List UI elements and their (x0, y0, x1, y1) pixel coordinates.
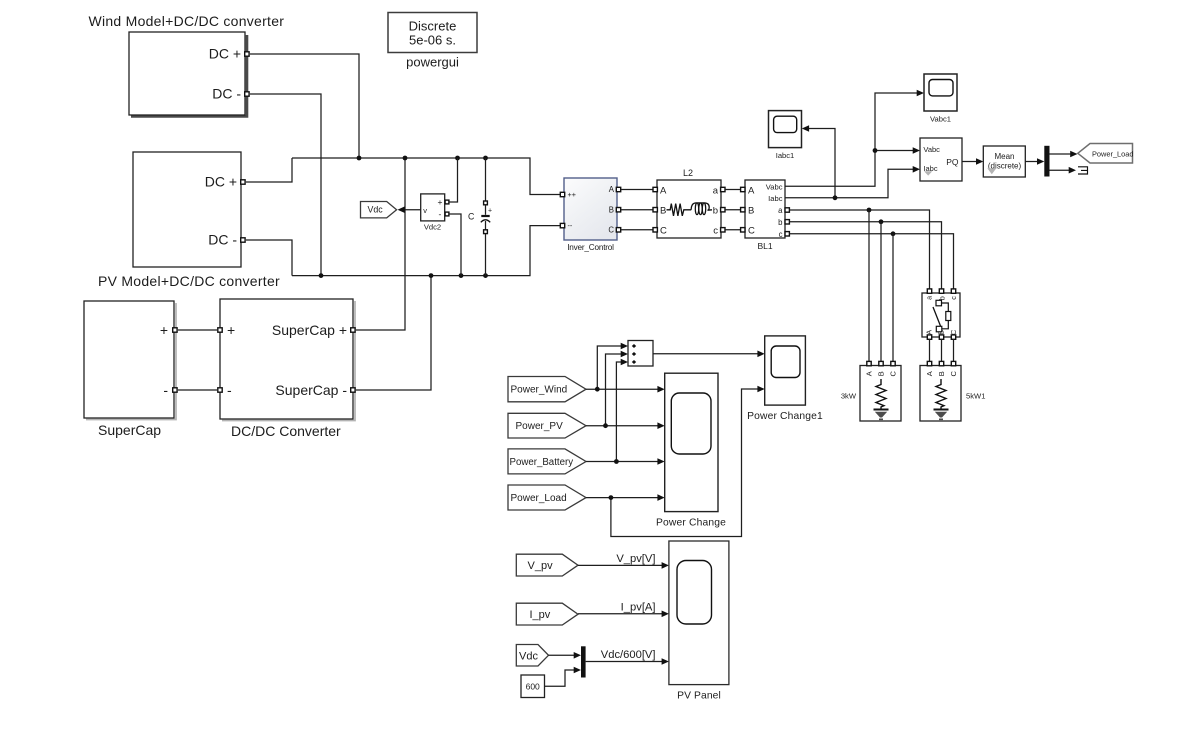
wire phase c BL1 to breaker (789, 234, 953, 289)
svg-text:Vdc2: Vdc2 (424, 223, 441, 232)
wire bottom DC bus (292, 226, 561, 276)
node junction Power_PV (603, 423, 608, 428)
from tag V_pv (516, 554, 578, 576)
svg-text:B: B (748, 206, 754, 217)
svg-text:Iabc1: Iabc1 (776, 151, 795, 160)
node junction top bus x405 (403, 156, 408, 161)
svg-text:Power Change: Power Change (656, 518, 726, 529)
svg-text:DC +: DC + (209, 46, 241, 62)
node junction Vabc branch (873, 148, 878, 153)
svg-text:a: a (925, 296, 934, 300)
wire Vdc2 + to top bus (449, 158, 458, 202)
from tag Power_Load (508, 485, 586, 510)
mux2 Vdc scale (581, 646, 586, 677)
wire branch Power_Battery to mux (616, 362, 622, 462)
terminator (1078, 167, 1088, 174)
three-phase load 3kW (841, 361, 901, 421)
wire Power_Wind to Power Change (586, 388, 659, 390)
block DC/DC Converter (218, 299, 355, 439)
node junction bottom bus x485 (483, 273, 488, 278)
goto tag Power_Load (1078, 144, 1134, 164)
wire demux to Power_Load goto (1050, 153, 1072, 155)
node junction top bus x457 (455, 156, 460, 161)
svg-text:+: + (160, 322, 168, 338)
wire Vdc2 - to bottom bus (449, 214, 461, 276)
wire DC/DC SuperCap+ to top bus (356, 158, 405, 330)
node junction Power_Load (609, 495, 614, 500)
svg-text:A: A (925, 371, 934, 376)
svg-text:5e-06 s.: 5e-06 s. (409, 33, 456, 48)
svg-text:Power_Battery: Power_Battery (510, 457, 574, 468)
wire Vdc2 v to Vdc tag (404, 209, 421, 211)
wire DC/DC SuperCap- to bottom bus (356, 276, 431, 390)
wire V_pv to PV Panel (578, 564, 663, 566)
svg-text:SuperCap +: SuperCap + (272, 322, 347, 338)
from tag Power_Battery (508, 449, 586, 474)
wire 600 to mux2 (545, 670, 576, 686)
wire breaker to 5kW1 phase b (941, 339, 943, 362)
svg-text:a: a (778, 206, 783, 215)
from tag Power_PV (508, 413, 586, 438)
svg-text:PV Panel: PV Panel (677, 691, 721, 702)
node junction bottom bus x321 (319, 273, 324, 278)
wire breaker to 5kW1 phase c (953, 339, 955, 362)
svg-text:b: b (937, 296, 946, 300)
svg-text:C: C (889, 371, 898, 377)
powergui (388, 13, 477, 70)
wire branch Power_PV to mux (606, 354, 623, 426)
svg-text:Vabc: Vabc (923, 145, 940, 154)
svg-text:b: b (713, 206, 718, 217)
wire PV DC- to bottom bus (246, 240, 292, 276)
svg-text:Inver_Control: Inver_Control (567, 243, 614, 252)
svg-text:A: A (748, 185, 755, 196)
wire Inver B to L2 B (621, 209, 653, 211)
svg-text:powergui: powergui (406, 55, 459, 70)
svg-text:c: c (779, 230, 783, 239)
wire phase a to 3kW load (868, 210, 870, 362)
wire SuperCap- to DC/DC - (178, 389, 217, 391)
svg-text:-: - (439, 209, 442, 219)
svg-text:V_pv: V_pv (528, 560, 554, 572)
svg-text:A: A (660, 185, 667, 196)
wire Power_Load to Power Change (586, 497, 659, 499)
svg-text:I_pv: I_pv (530, 609, 551, 621)
wire Power_Battery to Power Change (586, 461, 659, 463)
svg-text:Power_PV: Power_PV (516, 421, 564, 432)
scope Power Change (656, 373, 726, 528)
goto tag Vdc (361, 202, 397, 218)
node junction phase c (891, 231, 896, 236)
wire phase b to 3kW load (880, 222, 882, 362)
block Mean (discrete) (983, 146, 1025, 177)
svg-text:Vabc: Vabc (766, 182, 783, 191)
block PV Model+DC/DC converter (98, 152, 280, 289)
node junction phase a (867, 208, 872, 213)
svg-text:Wind Model+DC/DC converter: Wind Model+DC/DC converter (89, 13, 285, 29)
svg-text:A: A (609, 185, 615, 194)
svg-text:B: B (660, 206, 666, 217)
svg-text:600: 600 (526, 682, 540, 692)
wire mux2 to PV Panel (586, 661, 663, 663)
svg-text:Vdc/600[V]: Vdc/600[V] (601, 649, 656, 661)
svg-text:c: c (713, 226, 718, 237)
svg-text:PQ: PQ (946, 157, 959, 167)
node junction top bus x359 (357, 156, 362, 161)
wire PV DC+ to top bus (246, 158, 292, 182)
svg-text:v: v (423, 206, 427, 215)
svg-text:Mean: Mean (994, 152, 1014, 161)
svg-text:C: C (748, 226, 755, 237)
node junction Power_Wind (595, 387, 600, 392)
scope Iabc1 (769, 111, 802, 160)
wire PQ to Mean (962, 161, 977, 163)
three-phase load 5kW1 (920, 361, 985, 421)
svg-text:++: ++ (568, 190, 576, 199)
wire L2 a to BL1 A (725, 189, 742, 191)
wire top DC bus (292, 158, 561, 195)
wire Wind DC- to bottom bus (250, 94, 321, 276)
svg-text:A: A (865, 371, 874, 376)
svg-text:Power_Load: Power_Load (1092, 149, 1134, 158)
wire L2 c to BL1 C (725, 229, 742, 231)
svg-text:-: - (163, 382, 168, 398)
wire Inver C to L2 C (621, 229, 653, 231)
demux (1044, 146, 1049, 177)
svg-text:Vdc: Vdc (519, 650, 538, 662)
wire I_pv to PV Panel (578, 613, 663, 615)
scope Power Change1 (747, 336, 823, 422)
svg-text:A: A (925, 330, 934, 335)
three-phase series RL branch L2 (653, 168, 725, 238)
svg-text:DC/DC Converter: DC/DC Converter (231, 423, 341, 439)
svg-text:B: B (877, 371, 886, 376)
svg-text:DC +: DC + (205, 174, 237, 190)
power measurement block PQ (920, 138, 962, 181)
wire branch Iabc to Iabc1 scope (808, 129, 835, 198)
wire demux to terminator (1050, 169, 1070, 171)
node junction Power_Battery (614, 459, 619, 464)
block SuperCap (84, 301, 177, 438)
wire Mean to demux (1025, 161, 1038, 163)
wire Power_PV to Power Change (586, 425, 659, 427)
svg-text:C: C (608, 225, 614, 234)
svg-text:+: + (438, 197, 443, 207)
from tag I_pv (516, 603, 578, 625)
wire branch Power_Load to Power Change1 (611, 389, 758, 537)
svg-text:Vdc: Vdc (368, 205, 384, 215)
three-phase breaker (922, 289, 960, 339)
node junction bottom bus x461 (459, 273, 464, 278)
wire breaker to 5kW1 phase a (929, 339, 931, 362)
svg-text:+: + (227, 322, 235, 338)
svg-text:Power_Wind: Power_Wind (511, 385, 568, 396)
svg-text:Iabc: Iabc (768, 194, 783, 203)
wire BL1 Iabc to PQ input (785, 169, 914, 198)
wire Wind DC+ to top bus (250, 54, 359, 158)
svg-text:b: b (778, 218, 783, 227)
wire L2 b to BL1 B (725, 209, 742, 211)
svg-text:DC -: DC - (208, 232, 237, 248)
capacitor C (468, 158, 492, 276)
svg-text:C: C (468, 212, 475, 222)
svg-text:C: C (949, 329, 958, 335)
svg-text:3kW: 3kW (841, 392, 857, 401)
wire Vdc to mux2 (549, 654, 576, 656)
svg-text:5kW1: 5kW1 (966, 392, 985, 401)
node junction top bus x485 (483, 156, 488, 161)
node junction Iabc branch (833, 195, 838, 200)
subsystem Inver_Control (560, 178, 620, 252)
node junction phase b (879, 219, 884, 224)
svg-text:L2: L2 (683, 168, 693, 178)
wire SuperCap+ to DC/DC + (178, 329, 217, 331)
wire phase a BL1 to breaker (789, 210, 929, 289)
wire branch Vabc to PQ input (875, 150, 914, 152)
svg-text:DC -: DC - (212, 86, 241, 102)
svg-text:PV Model+DC/DC converter: PV Model+DC/DC converter (98, 273, 280, 289)
svg-text:a: a (713, 185, 719, 196)
svg-text:-: - (227, 382, 232, 398)
three-phase VI measurement BL1 (741, 180, 790, 251)
svg-text:Discrete: Discrete (409, 18, 457, 33)
svg-text:SuperCap: SuperCap (98, 422, 161, 438)
constant 600 (521, 675, 545, 698)
svg-text:Power_Load: Power_Load (511, 493, 567, 504)
svg-text:BL1: BL1 (757, 241, 772, 251)
wire Inver A to L2 A (621, 189, 653, 191)
from tag Power_Wind (508, 377, 586, 402)
mux power signals (628, 341, 653, 367)
scope PV Panel (669, 541, 729, 702)
svg-text:+: + (488, 208, 492, 215)
from tag Vdc (516, 645, 548, 667)
wire phase c to 3kW load (892, 234, 894, 362)
wire BL1 Vabc to Vabc1 scope and PQ (785, 93, 918, 186)
svg-text:B: B (609, 205, 614, 214)
svg-text:V_pv[V]: V_pv[V] (616, 553, 655, 565)
svg-text:B: B (937, 371, 946, 376)
wire phase b BL1 to breaker (789, 222, 941, 289)
wire mux to Power Change1 (653, 353, 758, 355)
node junction bottom bus x431 (429, 273, 434, 278)
svg-text:c: c (949, 296, 958, 300)
svg-text:C: C (660, 226, 667, 237)
voltage measurement Vdc2 (421, 194, 449, 232)
svg-text:Vabc1: Vabc1 (930, 114, 951, 123)
svg-text:I_pv[A]: I_pv[A] (621, 602, 656, 614)
block Wind Model+DC/DC converter (89, 13, 285, 117)
svg-text:--: -- (568, 221, 573, 230)
svg-text:Power Change1: Power Change1 (747, 411, 823, 422)
svg-text:SuperCap -: SuperCap - (275, 382, 347, 398)
scope Vabc1 (924, 74, 957, 123)
svg-text:C: C (949, 371, 958, 377)
wire branch Power_Wind to mux (597, 346, 622, 389)
